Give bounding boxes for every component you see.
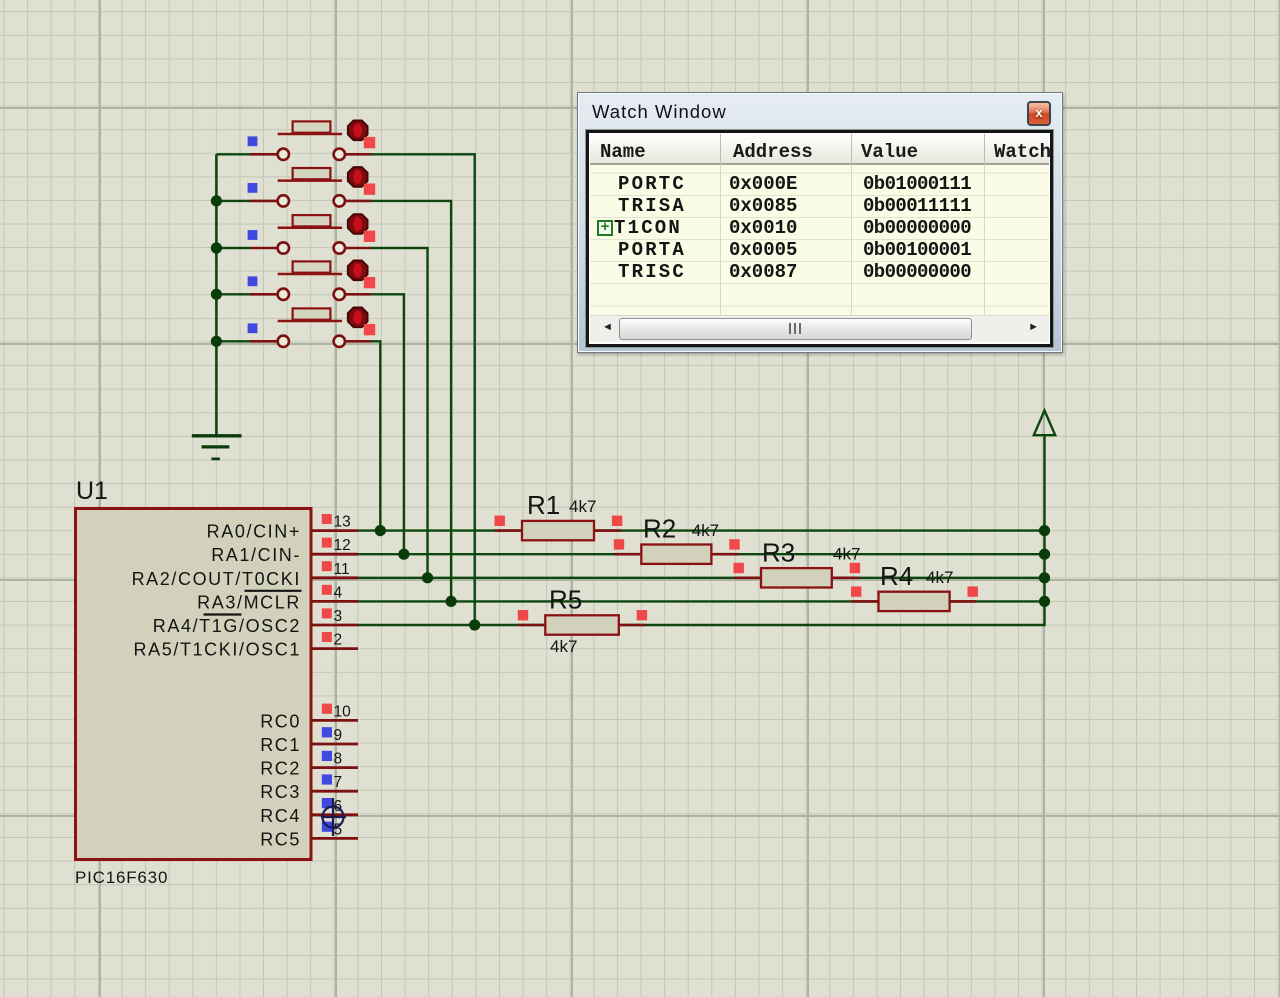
resistor R4 [852,592,977,611]
svg-text:RC4: RC4 [260,806,301,826]
R2 reference label [643,514,676,544]
pin stub RC5 (pin 5) [312,837,358,840]
pin number 13 [334,514,351,531]
overline for T1G [204,613,242,615]
logic state square (red) button 2 [364,184,375,195]
pin label RA0/CIN+ [207,522,301,542]
svg-text:RC0: RC0 [260,711,301,731]
pin number 2 [334,632,343,649]
R5 left terminal state square [518,610,528,620]
pin state square RA0 [322,514,332,524]
logic state square (blue) button 1 [248,136,258,146]
overline for MCLR (active low) [245,590,302,592]
logic state square (blue) button 5 [248,323,258,333]
wire: button 5 left connection [216,340,250,342]
junction: button column x=451.1 on row y=601.4 [446,596,457,607]
logic state square (red) button 4 [364,277,375,288]
push button 1 [250,121,371,161]
pin stub RA2 (pin 11) [312,576,358,579]
pin label RA1/CIN- [211,545,301,565]
pin label RC2 [260,759,301,779]
wire: button 1 left connection [216,153,250,155]
svg-text:4k7: 4k7 [692,521,719,540]
pin label RC4 [260,806,301,826]
pin stub RA4 (pin 3) [312,624,358,627]
pin stub RA3 (pin 4) [312,600,358,603]
logic state square (red) button 1 [364,137,375,148]
junction: power bus at y=530.6 [1039,525,1050,536]
resistor R5 [518,615,646,634]
pin stub RC0 (pin 10) [312,719,358,722]
wire: RA4 pin row net y=625.0 [358,624,1045,626]
pin label RA2/COUT/T0CKI [132,569,301,589]
pin state square RC5 [322,822,332,832]
R4 left terminal state square [851,586,861,596]
R2 right terminal state square [729,539,739,549]
svg-text:R4: R4 [880,561,913,591]
resistor R1 [495,521,621,540]
push button 3 [250,214,371,254]
junction: button column x=474.7 on row y=625.0 [469,619,480,630]
pin state square RA1 [322,538,332,548]
logic state square (red) button 3 [364,231,375,242]
power symbol (VCC arrow) [1034,411,1055,436]
svg-text:10: 10 [334,703,352,720]
junction: button column x=427.5 on row y=577.8 [422,572,433,583]
svg-text:8: 8 [334,751,343,768]
pin number 4 [334,584,343,601]
junction: power bus at y=554.2 [1039,549,1050,560]
pin state square RC1 [322,727,332,737]
table body [590,165,1049,315]
R4 right terminal state square [968,586,978,596]
svg-text:9: 9 [334,727,343,744]
microcontroller U1 PIC16F630 body [76,509,312,860]
U1 reference label [76,477,108,505]
wire: button 4 right connection to column x=403.9 [371,294,404,554]
pin label RA3/MCLR [197,592,301,612]
svg-text:PIC16F630: PIC16F630 [75,868,168,887]
wire: button 3 right connection to column x=427.5 [371,248,428,578]
wire: button 5 right connection to column x=380.3 [371,341,380,530]
R4 value label 4k7 [926,568,953,587]
pin number 8 [334,751,343,768]
wire: RA1 pin row net y=554.2 [358,553,1045,555]
pin stub RC1 (pin 9) [312,743,358,746]
pin state square RC2 [322,751,332,761]
pin stub RC4 (pin 6) [312,813,358,816]
logic state square (blue) button 3 [248,230,258,240]
pin label RC5 [260,829,301,849]
svg-text:7: 7 [334,774,343,791]
pin state square RC0 [322,704,332,714]
svg-text:3: 3 [334,608,343,625]
junction: power bus at y=601.4 [1039,596,1050,607]
pin label RA4/T1G/OSC2 [153,616,301,636]
push button 2 [250,167,371,206]
junction: ground bus / button 3 [211,242,222,253]
pin state square RA4 [322,608,332,618]
pin state square RA2 [322,561,332,571]
svg-text:R5: R5 [549,585,582,615]
svg-text:4k7: 4k7 [569,497,596,516]
wire: RA2 pin row net y=577.8 [358,577,1045,579]
U1 value label PIC16F630 [75,868,168,887]
pin state square RC3 [322,774,332,784]
junction: button column x=403.9 on row y=554.2 [398,549,409,560]
ground [192,436,242,459]
resistor R3 [734,568,859,587]
junction: ground bus / button 5 [211,336,222,347]
wire: RA0 pin row net y=530.6 [358,529,1045,531]
svg-text:4k7: 4k7 [833,544,860,563]
pin number 6 [334,798,343,815]
pin number 5 [334,821,343,838]
pin number 3 [334,608,343,625]
pin label RC0 [260,711,301,731]
wire: button 2 right connection to column x=451.1 [371,201,451,602]
table header [590,134,1049,165]
svg-text:R1: R1 [527,490,560,520]
logic state square (blue) button 4 [248,276,258,286]
pin state square RC4 [322,798,332,808]
svg-text:RA4/T1G/OSC2: RA4/T1G/OSC2 [153,616,301,636]
svg-text:12: 12 [334,537,351,554]
pin label RA5/T1CKI/OSC1 [134,640,301,660]
pin number 11 [334,561,350,578]
wire: right power bus vertical [1043,436,1045,627]
R3 left terminal state square [734,563,744,573]
junction: ground bus / button 4 [211,289,222,300]
svg-text:RC3: RC3 [260,782,301,802]
wire: button 2 left connection [216,200,250,202]
pin stub RA1 (pin 12) [312,553,358,556]
R5 reference label [549,585,582,615]
R5 value label 4k7 [550,637,577,656]
wire: button 4 left connection [216,293,250,295]
svg-text:RA2/COUT/T0CKI: RA2/COUT/T0CKI [132,569,301,589]
svg-text:RA0/CIN+: RA0/CIN+ [207,522,301,542]
R3 reference label [762,537,795,567]
horizontal scrollbar [590,315,1049,342]
svg-text:4k7: 4k7 [550,637,577,656]
svg-text:R2: R2 [643,514,676,544]
pin label RC1 [260,735,301,755]
R3 right terminal state square [850,563,860,573]
svg-text:R3: R3 [762,537,795,567]
wire: button 1 right connection to column x=474.7 [371,154,475,625]
pin state square RA3 [322,585,332,595]
R1 left terminal state square [495,516,505,526]
pin stub RC3 (pin 7) [312,790,358,793]
junction: button column x=380.3 on row y=530.6 [375,525,386,536]
R2 value label 4k7 [692,521,719,540]
svg-text:11: 11 [334,561,350,578]
logic state square (blue) button 2 [248,183,258,193]
pin number 9 [334,727,343,744]
pin stub RA5 (pin 2) [312,647,358,650]
junction: ground bus / button 2 [211,195,222,206]
push button 5 [250,308,371,347]
R1 reference label [527,490,560,520]
resistor R2 [614,545,738,564]
pin label RC3 [260,782,301,802]
svg-text:RC1: RC1 [260,735,301,755]
svg-text:U1: U1 [76,477,108,505]
svg-text:RA5/T1CKI/OSC1: RA5/T1CKI/OSC1 [134,640,301,660]
pin state square RA5 [322,632,332,642]
junction: power bus at y=577.8 [1039,572,1050,583]
svg-text:RA1/CIN-: RA1/CIN- [211,545,301,565]
wire: left ground bus vertical [215,154,218,436]
R4 reference label [880,561,913,591]
close button [1027,101,1051,126]
R1 right terminal state square [612,516,622,526]
R1 value label 4k7 [569,497,596,516]
mouse cursor crosshair [321,798,346,836]
push button 4 [250,261,371,300]
logic state square (red) button 5 [364,324,375,335]
wire: RA3 pin row net y=601.4 [358,600,1045,602]
Watch Window dialog [577,92,1063,353]
svg-text:RC5: RC5 [260,829,301,849]
wire: button 3 left connection [216,247,250,249]
svg-text:4k7: 4k7 [926,568,953,587]
svg-text:RC2: RC2 [260,759,301,779]
svg-text:13: 13 [334,514,351,531]
svg-text:4: 4 [334,584,343,601]
svg-text:RA3/MCLR: RA3/MCLR [197,592,301,612]
R2 left terminal state square [614,539,624,549]
pin stub RA0 (pin 13) [312,529,358,532]
pin number 10 [334,703,352,720]
pin number 12 [334,537,351,554]
pin stub RC2 (pin 8) [312,766,358,769]
pin number 7 [334,774,343,791]
svg-text:2: 2 [334,632,343,649]
R5 right terminal state square [637,610,647,620]
R3 value label 4k7 [833,544,860,563]
